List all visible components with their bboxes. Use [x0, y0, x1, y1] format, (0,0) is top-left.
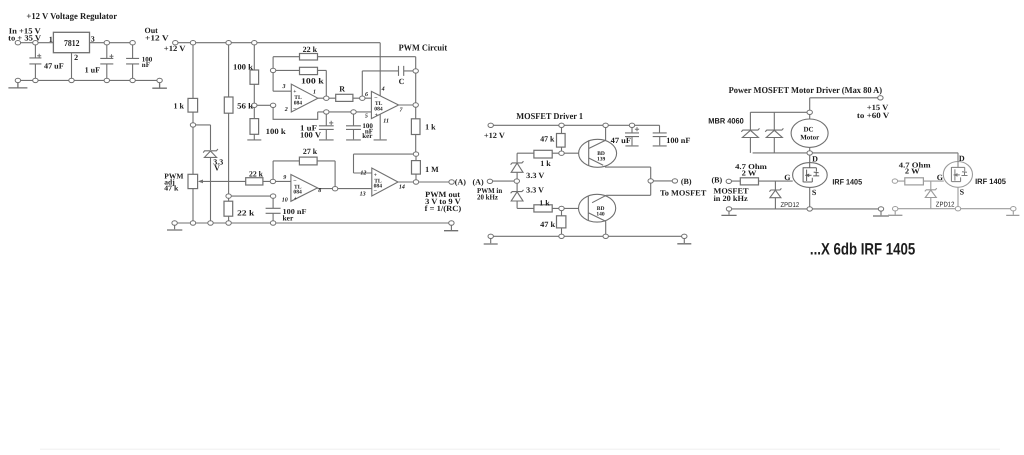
svg-text:1 k: 1 k [540, 159, 551, 168]
svg-text:2: 2 [74, 53, 78, 62]
svg-text:2 W: 2 W [742, 169, 757, 178]
svg-text:100 k: 100 k [266, 127, 287, 136]
svg-text:10: 10 [282, 198, 288, 204]
svg-text:1 uF: 1 uF [85, 65, 101, 74]
svg-text:in 20 kHz: in 20 kHz [714, 194, 749, 203]
svg-text:14: 14 [399, 185, 405, 191]
svg-text:R: R [339, 84, 345, 93]
svg-text:47 uF: 47 uF [44, 61, 64, 70]
svg-text:(A): (A) [455, 178, 466, 187]
svg-text:ZPD12: ZPD12 [936, 201, 955, 208]
svg-text:2: 2 [284, 107, 288, 113]
svg-text:+: + [374, 172, 377, 178]
svg-text:56 k: 56 k [237, 102, 254, 111]
svg-text:...X 6db IRF 1405: ...X 6db IRF 1405 [810, 240, 915, 258]
svg-text:1 k: 1 k [174, 101, 185, 110]
svg-text:–: – [293, 178, 297, 184]
svg-text:1 k: 1 k [539, 198, 550, 207]
svg-text:ker: ker [362, 132, 372, 140]
svg-text:47 k: 47 k [540, 220, 556, 229]
svg-text:–: – [292, 106, 296, 112]
svg-text:–: – [373, 188, 377, 194]
svg-text:139: 139 [597, 157, 606, 163]
svg-text:PWM Circuit: PWM Circuit [399, 42, 448, 52]
svg-text:100 nF: 100 nF [666, 136, 690, 145]
svg-text:+: + [294, 196, 297, 202]
svg-text:f = 1/(RC): f = 1/(RC) [425, 204, 462, 213]
svg-text:22 k: 22 k [249, 169, 264, 178]
svg-text:3.3 V: 3.3 V [526, 185, 544, 194]
svg-text:D: D [812, 154, 818, 163]
svg-text:Motor: Motor [800, 134, 819, 142]
svg-text:(B): (B) [712, 176, 723, 185]
svg-text:20 kHz: 20 kHz [477, 192, 499, 201]
svg-text:ZPD12: ZPD12 [781, 202, 800, 209]
svg-text:3: 3 [91, 35, 95, 44]
svg-text:7812: 7812 [64, 38, 80, 48]
svg-text:1 k: 1 k [425, 123, 436, 132]
svg-text:IRF 1405: IRF 1405 [975, 177, 1007, 186]
svg-text:DC: DC [804, 125, 814, 133]
svg-text:4: 4 [381, 86, 385, 92]
svg-text:084: 084 [374, 106, 383, 112]
svg-text:100 k: 100 k [233, 63, 254, 72]
svg-text:1: 1 [49, 35, 53, 44]
svg-text:22 k: 22 k [237, 208, 255, 217]
svg-text:+: + [375, 113, 378, 119]
svg-text:MOSFET Driver 1: MOSFET Driver 1 [516, 111, 583, 121]
svg-text:3: 3 [282, 84, 286, 90]
svg-text:3.3 V: 3.3 V [526, 171, 544, 180]
svg-text:140: 140 [596, 212, 605, 218]
svg-text:IRF 1405: IRF 1405 [832, 177, 862, 186]
svg-text:+12 V: +12 V [164, 44, 186, 53]
svg-text:G: G [937, 173, 943, 182]
svg-text:+12 V: +12 V [484, 131, 505, 140]
svg-text:–: – [374, 95, 378, 101]
svg-text:V: V [214, 164, 220, 173]
svg-text:8: 8 [318, 188, 321, 194]
svg-text:13: 13 [360, 192, 366, 198]
svg-text:100 k: 100 k [301, 77, 324, 86]
svg-text:47 k: 47 k [164, 184, 179, 193]
svg-text:ker: ker [283, 213, 295, 222]
svg-text:084: 084 [293, 190, 302, 196]
svg-text:12: 12 [360, 170, 366, 176]
svg-text:6: 6 [365, 92, 368, 98]
svg-text:27 k: 27 k [303, 147, 318, 156]
svg-text:G: G [784, 173, 790, 182]
svg-text:47 k: 47 k [540, 134, 555, 143]
svg-text:Power MOSFET Motor Driver (Max: Power MOSFET Motor Driver (Max 80 A) [729, 85, 883, 95]
svg-text:+12 V: +12 V [145, 34, 169, 43]
svg-text:S: S [812, 188, 817, 197]
svg-text:9: 9 [283, 175, 286, 181]
svg-text:2 W: 2 W [905, 166, 920, 175]
svg-text:S: S [960, 188, 965, 197]
svg-text:+12 V Voltage Regulator: +12 V Voltage Regulator [26, 11, 117, 21]
svg-text:C: C [399, 77, 405, 86]
svg-text:47 uF: 47 uF [611, 136, 631, 145]
svg-text:To MOSFET: To MOSFET [660, 188, 707, 197]
svg-text:1 M: 1 M [425, 165, 439, 174]
svg-text:nF: nF [142, 61, 150, 69]
svg-text:11: 11 [383, 118, 389, 124]
svg-text:(B): (B) [681, 177, 692, 186]
svg-text:to +60 V: to +60 V [857, 111, 890, 120]
svg-text:1: 1 [313, 90, 316, 96]
svg-text:to + 35 V: to + 35 V [8, 34, 41, 43]
svg-text:MBR 4060: MBR 4060 [708, 116, 744, 125]
svg-text:100 V: 100 V [300, 130, 321, 139]
svg-text:D: D [959, 154, 965, 163]
svg-text:22 k: 22 k [303, 45, 318, 54]
svg-text:5: 5 [365, 113, 368, 119]
